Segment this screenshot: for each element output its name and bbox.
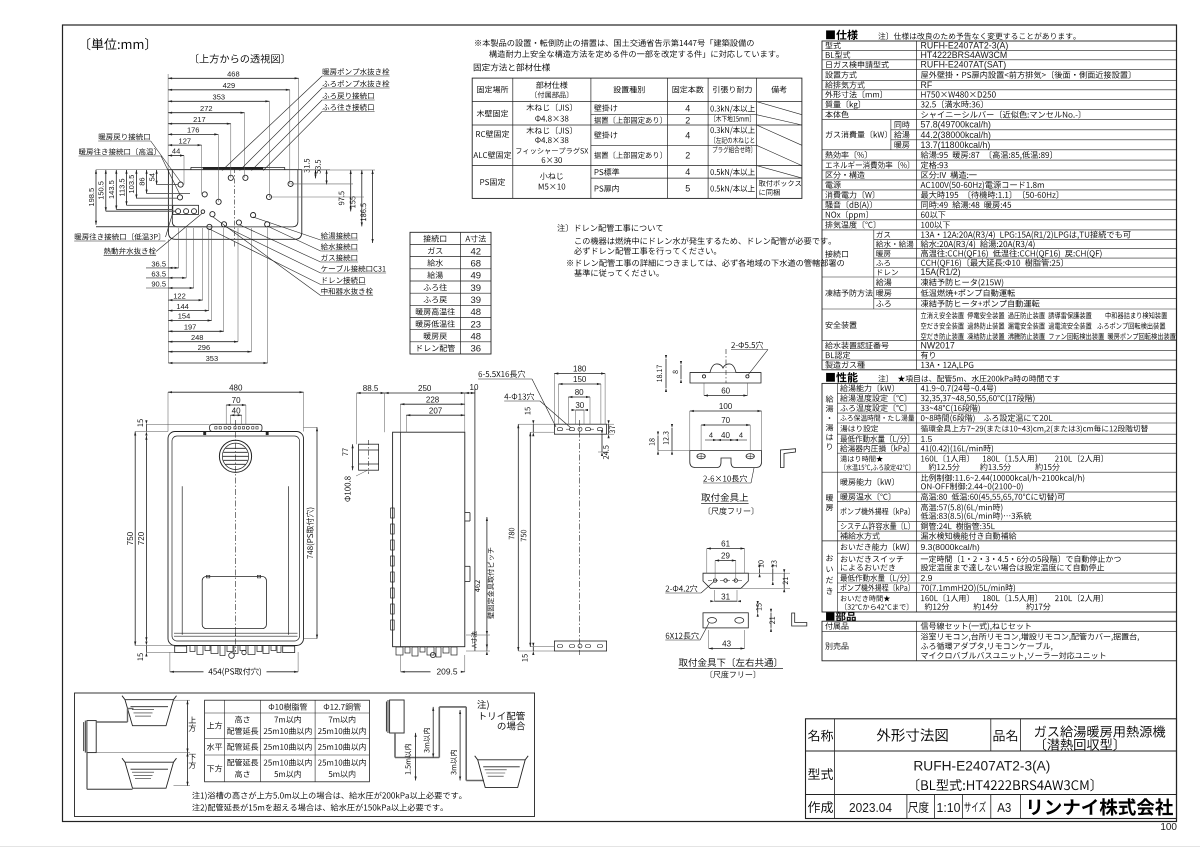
front dim 750 <box>134 432 136 646</box>
bottom dimension stack <box>167 239 169 363</box>
performance categories <box>826 395 834 450</box>
svg-text:217: 217 <box>193 115 206 124</box>
upper bracket dims2 <box>657 436 659 451</box>
svg-text:10: 10 <box>470 383 479 392</box>
torii dims <box>415 733 417 781</box>
lower bracket slot label <box>666 632 699 639</box>
svg-text:31: 31 <box>721 592 730 601</box>
lower bracket title <box>679 658 776 667</box>
svg-text:54: 54 <box>147 173 156 181</box>
svg-text:122: 122 <box>173 291 186 300</box>
piping notes <box>192 792 461 801</box>
svg-text:250: 250 <box>418 384 432 393</box>
lower bracket dims right <box>759 569 761 574</box>
svg-text:9.3(8000kcal/h): 9.3(8000kcal/h) <box>921 542 980 552</box>
unit note <box>87 38 148 50</box>
piping table header <box>269 703 307 710</box>
upper bracket dims <box>665 359 667 388</box>
upper bracket front view <box>690 410 762 412</box>
svg-text:720: 720 <box>137 531 146 545</box>
svg-text:750: 750 <box>126 531 135 545</box>
rear center line <box>579 420 581 655</box>
svg-text:353: 353 <box>213 93 226 102</box>
svg-text:36.5: 36.5 <box>151 259 166 268</box>
svg-text:2.9: 2.9 <box>921 573 933 583</box>
svg-text:90.5: 90.5 <box>151 280 166 289</box>
top view body outline <box>168 170 301 240</box>
rear dims <box>554 373 605 375</box>
svg-text:197: 197 <box>184 323 197 332</box>
front dim 15 top <box>145 424 147 431</box>
side duct label <box>344 476 350 501</box>
lower bracket plate <box>703 573 748 588</box>
svg-text:272: 272 <box>200 104 213 113</box>
svg-text:4: 4 <box>685 167 690 177</box>
top view front panel line <box>172 170 298 227</box>
svg-text:57.8(49700kcal/h): 57.8(49700kcal/h) <box>921 120 991 130</box>
svg-text:RUFH-E2407AT2-3(A): RUFH-E2407AT2-3(A) <box>913 759 1050 774</box>
side dim A <box>486 635 488 651</box>
performance section header <box>826 372 858 382</box>
upper bracket slots <box>697 454 705 459</box>
left dimension stack <box>95 170 97 225</box>
side duct dim 77 <box>352 444 354 470</box>
side view duct collar <box>359 444 379 470</box>
piping box frame <box>75 693 535 817</box>
side view body <box>393 432 465 647</box>
svg-text:43: 43 <box>722 640 731 649</box>
svg-text:80: 80 <box>575 388 584 397</box>
svg-text:176: 176 <box>187 126 200 135</box>
svg-text:143.5: 143.5 <box>107 180 116 199</box>
lower bracket side profile2 <box>703 613 748 628</box>
front dim 748 PS holes <box>316 427 318 638</box>
front dim 15 bottom <box>145 646 147 653</box>
svg-text:61: 61 <box>721 540 730 549</box>
svg-text:30: 30 <box>575 401 584 410</box>
top view right labels <box>323 68 390 75</box>
top dimension stack <box>168 77 299 79</box>
pipes upper <box>96 721 127 723</box>
performance table grid <box>822 383 1177 612</box>
svg-text:2: 2 <box>685 116 690 126</box>
rear view bottom bracket <box>554 641 606 651</box>
svg-text:68: 68 <box>471 258 482 269</box>
rear dim 24.5 <box>601 434 603 452</box>
svg-text:RF: RF <box>921 80 933 90</box>
rear view top bracket <box>554 424 606 434</box>
side dim 462 wall bracket pitch <box>486 517 488 649</box>
svg-text:RUFH-E2407AT(SAT): RUFH-E2407AT(SAT) <box>921 60 1007 70</box>
front view body <box>168 432 304 646</box>
lower bracket label <box>666 585 698 592</box>
upper bracket title <box>701 493 748 502</box>
title row2 <box>808 768 833 780</box>
svg-text:42: 42 <box>471 246 482 257</box>
svg-text:480: 480 <box>229 383 243 392</box>
spec table <box>822 41 1177 370</box>
rear dim 37 <box>608 424 610 434</box>
svg-text:103.5: 103.5 <box>127 175 136 194</box>
svg-text:2: 2 <box>685 151 690 161</box>
front dim 454 PS holes <box>170 671 204 673</box>
svg-text:4: 4 <box>685 131 690 141</box>
front bottom strip <box>174 632 298 634</box>
svg-text:209.5: 209.5 <box>437 667 458 677</box>
svg-text:36: 36 <box>471 344 482 355</box>
upper bracket slot label <box>703 475 747 482</box>
svg-text:2023.04: 2023.04 <box>849 800 892 815</box>
top view title <box>196 54 283 64</box>
upper bracket label 2-5.5 <box>731 341 763 348</box>
svg-text:13.7(11800kcal/h): 13.7(11800kcal/h) <box>921 140 991 150</box>
safety devices row <box>825 321 856 328</box>
svg-text:207: 207 <box>429 406 443 415</box>
torii bathtub <box>475 756 529 788</box>
certification rows <box>825 342 888 349</box>
rear dim 780 <box>517 424 519 651</box>
installation note <box>475 39 753 47</box>
svg-text:15A(R1/2): 15A(R1/2) <box>921 267 961 277</box>
exhaust grille <box>219 440 251 472</box>
svg-text:70: 70 <box>721 416 730 425</box>
rear labels <box>479 370 526 377</box>
front bottom connectors <box>175 646 187 653</box>
fixing table row3 PS <box>480 178 505 185</box>
svg-text:44: 44 <box>172 147 180 156</box>
svg-text:NW2017: NW2017 <box>921 341 955 351</box>
connector circles <box>178 182 183 187</box>
svg-text:296: 296 <box>198 343 211 352</box>
svg-text:127: 127 <box>179 136 192 145</box>
front view inner panel <box>172 436 300 641</box>
low-temp connector box <box>173 205 199 214</box>
side dim 209.5 <box>401 671 431 673</box>
spec section header <box>826 30 858 40</box>
svg-text:353: 353 <box>206 354 219 363</box>
svg-text:113.5: 113.5 <box>117 178 126 196</box>
fixing table row2 RC/ALC wall <box>476 130 509 137</box>
svg-text:1:10: 1:10 <box>937 800 961 815</box>
svg-text:180: 180 <box>573 365 587 374</box>
side bottom connectors <box>396 647 403 655</box>
front access panel <box>202 577 266 629</box>
svg-text:4: 4 <box>685 104 690 114</box>
freeze prevention rows <box>825 289 872 296</box>
svg-text:100: 100 <box>719 402 733 411</box>
rear dim 15 bottom <box>522 654 528 661</box>
connection rows <box>825 250 848 257</box>
svg-text:4: 4 <box>739 431 743 440</box>
svg-text:228: 228 <box>426 395 440 404</box>
svg-text:100: 100 <box>1160 822 1177 833</box>
front dims <box>168 391 304 393</box>
svg-text:248: 248 <box>191 333 204 342</box>
A-dimension table <box>410 232 491 354</box>
parts table <box>822 621 1177 661</box>
upper bathtub <box>122 696 177 726</box>
svg-text:154: 154 <box>178 312 191 321</box>
torii note <box>477 700 488 710</box>
svg-text:468: 468 <box>227 70 240 79</box>
right small dims 31.5/53.5 <box>315 170 317 179</box>
svg-text:49: 49 <box>471 271 482 282</box>
top view rear bracket strip <box>191 166 285 168</box>
lower bathtub <box>122 758 177 788</box>
svg-text:1.5: 1.5 <box>921 434 933 444</box>
svg-text:4: 4 <box>709 431 713 440</box>
svg-text:88.5: 88.5 <box>363 384 379 393</box>
pipes lower <box>86 753 88 790</box>
piping table grid <box>205 700 370 782</box>
svg-text:44.2(38000kcal/h): 44.2(38000kcal/h) <box>921 130 991 140</box>
svg-text:86: 86 <box>137 177 146 185</box>
torii pipes <box>394 733 396 758</box>
drain piping note <box>557 224 662 232</box>
rear dim 750 <box>529 432 531 647</box>
low-temp connectors <box>176 209 181 214</box>
left dim extension lines <box>157 184 178 186</box>
svg-text:39: 39 <box>471 295 482 306</box>
svg-text:48: 48 <box>471 307 482 318</box>
svg-text:40: 40 <box>232 406 241 415</box>
right dims 97.5/155/186.5 <box>350 170 352 211</box>
performance rows <box>840 384 893 392</box>
wall line <box>474 388 476 651</box>
top view left labels <box>99 133 150 140</box>
side view top dims <box>357 392 385 394</box>
svg-text:70: 70 <box>232 396 241 405</box>
svg-text:48: 48 <box>471 332 482 343</box>
svg-text:60: 60 <box>721 387 730 396</box>
top dim extension lines <box>167 74 169 170</box>
svg-text:23: 23 <box>471 319 482 330</box>
svg-text:150.5: 150.5 <box>97 181 106 200</box>
torii piping heater <box>390 700 405 733</box>
front view center line <box>235 420 237 652</box>
lower bracket L profile <box>792 613 807 626</box>
svg-text:A3: A3 <box>997 800 1011 815</box>
top view center line <box>234 168 236 247</box>
updown dims <box>187 700 189 752</box>
fixing table grid <box>472 78 802 198</box>
svg-text:HT4222BRS4AW3CM: HT4222BRS4AW3CM <box>921 50 1008 60</box>
side view louvers <box>391 508 395 518</box>
piping table rows <box>207 722 222 729</box>
title row1 <box>808 730 833 742</box>
svg-text:29: 29 <box>721 552 730 561</box>
front panel seams <box>181 486 183 634</box>
lower bracket dims3 <box>757 605 759 613</box>
parts section header <box>826 612 856 622</box>
piping heater left <box>87 721 96 753</box>
svg-text:5: 5 <box>685 184 690 194</box>
svg-text:429: 429 <box>223 81 236 90</box>
scan artifact bottom <box>0 846 1200 848</box>
front view top bracket strip <box>210 424 262 431</box>
svg-text:63.5: 63.5 <box>151 269 166 278</box>
svg-text:39: 39 <box>471 283 482 294</box>
fixing table header <box>477 86 508 93</box>
rear dim 15 top <box>525 407 531 414</box>
svg-text:150: 150 <box>573 375 587 384</box>
upper bracket side profile <box>780 449 795 468</box>
gas consumption rows <box>826 131 887 139</box>
front view top edge marks <box>204 432 206 435</box>
title block frame <box>806 719 1177 819</box>
fixing table title <box>474 63 550 71</box>
svg-text:198.5: 198.5 <box>87 188 96 207</box>
title row3 <box>808 801 833 813</box>
lower bracket dims <box>707 548 745 550</box>
svg-text:144: 144 <box>176 302 189 311</box>
fixing table row1 wood wall <box>477 110 508 117</box>
front dim 720 <box>145 436 147 642</box>
upper bracket detail top view <box>690 364 761 383</box>
svg-text:40: 40 <box>721 431 730 440</box>
